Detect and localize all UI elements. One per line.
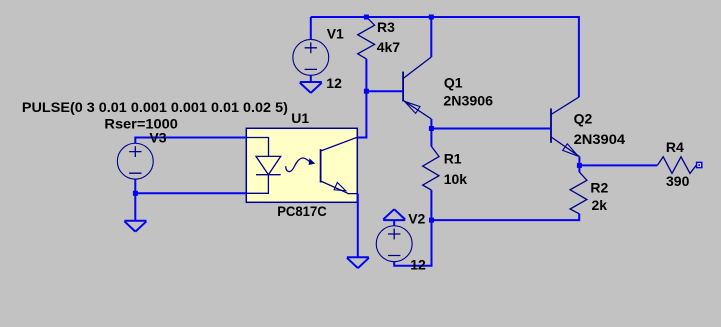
svg-text:V2: V2 [408, 211, 425, 227]
svg-text:10k: 10k [444, 171, 468, 187]
svg-text:V3: V3 [149, 130, 166, 146]
svg-text:V1: V1 [327, 26, 344, 42]
svg-text:2N3906: 2N3906 [443, 92, 493, 108]
svg-text:12: 12 [326, 75, 342, 91]
svg-text:4k7: 4k7 [377, 39, 401, 55]
svg-text:R1: R1 [444, 150, 462, 166]
svg-text:12: 12 [410, 256, 426, 272]
svg-text:R3: R3 [377, 19, 395, 35]
svg-text:R2: R2 [590, 180, 608, 196]
svg-text:PC817C: PC817C [277, 203, 327, 219]
svg-text:U1: U1 [291, 110, 309, 126]
svg-text:Rser=1000: Rser=1000 [104, 116, 178, 132]
svg-text:R4: R4 [666, 139, 684, 155]
svg-text:2k: 2k [592, 197, 608, 213]
svg-text:390: 390 [666, 173, 690, 189]
svg-text:Q1: Q1 [444, 75, 463, 91]
svg-text:Q2: Q2 [574, 111, 593, 127]
svg-text:PULSE(0 3 0.01 0.001 0.001 0.0: PULSE(0 3 0.01 0.001 0.001 0.01 0.02 5) [22, 99, 288, 115]
svg-text:2N3904: 2N3904 [574, 131, 626, 147]
